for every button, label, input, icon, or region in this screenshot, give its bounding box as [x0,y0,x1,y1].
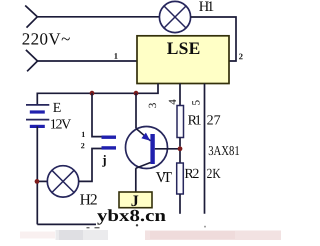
transistor VT (PNP) [126,127,181,169]
resistor R1 [177,106,184,138]
wire base node to R2 [179,151,181,163]
wire second line to LSE pin 1 [38,60,138,62]
watermark band gray [56,230,109,240]
wire stub below relay J [136,224,138,226]
svg-text:2: 2 [239,51,243,61]
wire bottom rail [37,223,96,225]
terminal X1 (220V line 1) [25,6,37,28]
relay contact j plate bottom [102,146,117,149]
relay coil J box [119,192,152,208]
svg-text:3: 3 [147,102,159,108]
wire junction to transistor emitter [135,93,137,128]
battery E [26,105,49,127]
svg-text:12V: 12V [50,118,72,133]
svg-text:LSE: LSE [167,38,201,58]
node junction dot (lamp H2 branch) [35,179,40,184]
svg-text:R2: R2 [184,167,199,182]
svg-text:1: 1 [81,130,85,139]
wire from H1 right, down to LSE pin 2 [191,17,236,61]
wire pin 4 of LSE to R1 [179,84,181,106]
svg-text:j: j [101,152,106,167]
watermark band pink [145,231,281,241]
wire transistor collector to relay J [135,168,137,192]
node junction dot (transistor base branch) [134,91,139,96]
IC U1 box LSE [137,36,229,84]
svg-text:4: 4 [167,99,179,105]
lamp H1 [159,1,190,32]
wire specks on bottom rail [87,227,90,228]
svg-text:E: E [53,101,62,116]
svg-text:VT: VT [156,170,173,186]
wire rail to lamp H2 [39,180,48,182]
wire pin 5 of LSE down [204,84,206,214]
node junction dot (base node) [178,146,183,151]
wire pin 3 of LSE down and left (bus) [37,84,158,105]
svg-text:H2: H2 [80,192,98,209]
wire junction to contact j top [92,93,102,136]
wire lamp H2 to contact j [79,149,102,182]
resistor R2 [177,163,184,194]
svg-text:27: 27 [207,113,221,128]
wire battery minus down left rail [36,126,38,224]
relay contact j plate top [102,135,117,138]
svg-text:1: 1 [114,51,118,61]
svg-text:R1: R1 [188,113,202,128]
svg-text:5: 5 [191,100,203,106]
svg-text:220V~: 220V~ [22,30,71,49]
lamp H2 [47,166,78,197]
svg-text:2K: 2K [207,167,221,182]
terminal X2 (220V line 2) [26,50,38,71]
wire stub below pin 5 [204,226,206,228]
svg-text:3AX81: 3AX81 [208,143,240,158]
wire R2 lead down [179,194,181,214]
wire R1 to base node [179,138,181,147]
node junction dot (contact j branch) [90,91,95,96]
svg-text:H1: H1 [199,0,215,15]
svg-text:2: 2 [81,141,85,150]
svg-text:ybx8.cn: ybx8.cn [97,206,167,225]
wire top line to lamp H1 [37,16,159,18]
